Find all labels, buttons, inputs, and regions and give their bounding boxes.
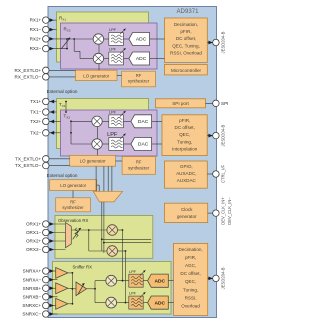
svg-text:ADC: ADC	[154, 300, 165, 306]
svg-text:SNRXB+: SNRXB+	[23, 286, 42, 291]
svg-text:pFIR,: pFIR,	[179, 118, 190, 123]
svg-text:RX_EXTLO−: RX_EXTLO−	[15, 75, 42, 80]
svg-text:RX1: RX1	[59, 16, 66, 22]
svg-text:AUXADC,: AUXADC,	[176, 171, 196, 176]
svg-text:Decimation,: Decimation,	[178, 247, 202, 252]
svg-text:RF: RF	[136, 160, 142, 165]
svg-text:TX1−: TX1−	[30, 110, 41, 115]
svg-text:QEC, Tuning,: QEC, Tuning,	[172, 43, 200, 48]
svg-text:LPF: LPF	[129, 270, 137, 274]
svg-text:GPIO,: GPIO,	[180, 164, 193, 169]
svg-text:JESD204-B: JESD204-B	[221, 31, 226, 53]
svg-text:LPF: LPF	[109, 28, 117, 32]
svg-text:DEV_CLK_IN−: DEV_CLK_IN−	[227, 197, 232, 225]
svg-text:TX1+: TX1+	[30, 99, 41, 104]
svg-text:RX2−: RX2−	[30, 46, 42, 51]
svg-text:SNRXC−: SNRXC−	[22, 312, 41, 317]
svg-text:LO generator: LO generator	[80, 159, 106, 164]
svg-text:RF: RF	[70, 200, 76, 205]
svg-text:Observation RX: Observation RX	[58, 218, 88, 223]
svg-text:LO generator: LO generator	[60, 183, 86, 188]
svg-text:SNRXB−: SNRXB−	[23, 294, 42, 299]
svg-text:pFIR,: pFIR,	[180, 29, 191, 34]
svg-text:External option: External option	[47, 89, 78, 94]
svg-text:Tuning,: Tuning,	[183, 287, 198, 292]
svg-text:TX1: TX1	[59, 102, 66, 108]
svg-text:JESD204-B: JESD204-B	[221, 267, 226, 289]
svg-text:SPI port: SPI port	[172, 101, 189, 106]
svg-text:DC offset,: DC offset,	[176, 36, 196, 41]
svg-text:LPF: LPF	[109, 48, 117, 52]
svg-text:Tuning,: Tuning,	[177, 139, 192, 144]
svg-text:DC offset,: DC offset,	[175, 125, 195, 130]
svg-text:DAC: DAC	[138, 142, 149, 148]
svg-text:SPI: SPI	[221, 101, 228, 106]
svg-text:AUXDAC: AUXDAC	[177, 178, 197, 183]
svg-text:RX1+: RX1+	[30, 18, 42, 23]
svg-text:LPF: LPF	[107, 132, 118, 138]
svg-text:DC offset,: DC offset,	[180, 271, 200, 276]
svg-text:TX2−: TX2−	[30, 130, 41, 135]
svg-text:RX2+: RX2+	[30, 37, 42, 42]
svg-text:ORX2−: ORX2−	[26, 247, 42, 252]
svg-text:External option: External option	[47, 173, 78, 178]
svg-text:RSSI, Overload: RSSI, Overload	[170, 51, 202, 56]
svg-text:TX_EXTLO+: TX_EXTLO+	[15, 156, 41, 161]
svg-text:pFIR,: pFIR,	[185, 255, 196, 260]
svg-text:synthesizer: synthesizer	[128, 79, 150, 84]
svg-text:TX2+: TX2+	[30, 119, 41, 124]
svg-text:LO generator: LO generator	[83, 73, 109, 78]
svg-text:QEC,: QEC,	[185, 279, 196, 284]
svg-text:SNRXA+: SNRXA+	[23, 269, 42, 274]
svg-text:Microcontroller: Microcontroller	[171, 68, 202, 73]
svg-text:LPF: LPF	[129, 292, 137, 296]
svg-text:AGC,: AGC,	[185, 263, 196, 268]
svg-text:DAC: DAC	[138, 119, 149, 125]
svg-text:Sniffer RX: Sniffer RX	[73, 264, 93, 269]
svg-text:LPF: LPF	[109, 111, 117, 115]
svg-text:Decimation,: Decimation,	[174, 22, 198, 27]
svg-text:RX1−: RX1−	[30, 27, 42, 32]
svg-text:synthesizer: synthesizer	[128, 166, 150, 171]
svg-text:ADC: ADC	[136, 37, 147, 43]
svg-text:JESD204-B: JESD204-B	[221, 124, 226, 146]
svg-text:SNRXA−: SNRXA−	[23, 277, 42, 282]
svg-text:QEC,: QEC,	[179, 132, 190, 137]
svg-text:AD9371: AD9371	[176, 8, 199, 15]
svg-text:ADC: ADC	[136, 56, 147, 62]
svg-text:DEV_CLK_IN+: DEV_CLK_IN+	[220, 197, 225, 225]
svg-text:Interpolation: Interpolation	[172, 147, 198, 152]
svg-text:TX2: TX2	[64, 114, 71, 120]
svg-text:TX_EXTLO−: TX_EXTLO−	[15, 163, 41, 168]
svg-text:ORX2+: ORX2+	[26, 239, 42, 244]
svg-text:CTRL_I/F: CTRL_I/F	[221, 164, 226, 183]
svg-text:ORX1+: ORX1+	[26, 222, 42, 227]
svg-text:generator: generator	[177, 214, 197, 219]
svg-text:RF: RF	[136, 73, 142, 78]
svg-text:SNRXC+: SNRXC+	[22, 303, 41, 308]
svg-text:ADC: ADC	[154, 278, 165, 284]
svg-text:ORX1−: ORX1−	[26, 230, 42, 235]
svg-text:synthesizer: synthesizer	[62, 205, 84, 210]
svg-text:Overload: Overload	[181, 304, 200, 309]
svg-text:Clock: Clock	[181, 207, 193, 212]
svg-text:RSSI,: RSSI,	[185, 295, 197, 300]
svg-text:RX_EXTLO+: RX_EXTLO+	[15, 68, 42, 73]
svg-text:RX2: RX2	[64, 27, 71, 33]
